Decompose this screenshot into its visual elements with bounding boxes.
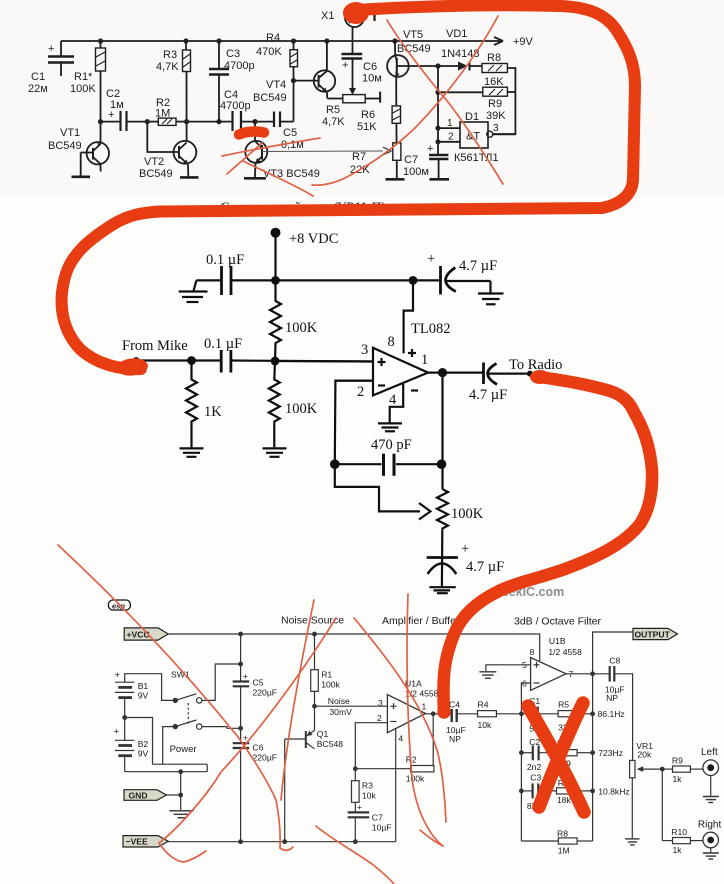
svg-text:100K: 100K [70, 83, 96, 95]
svg-text:+: + [243, 671, 248, 681]
svg-text:+8 VDC: +8 VDC [289, 231, 338, 247]
svg-text:BC549: BC549 [253, 92, 287, 104]
node OUTPUT tag [633, 628, 678, 639]
wire filter right column [592, 674, 594, 841]
capacitor C8 [593, 673, 610, 675]
svg-text:3: 3 [361, 342, 368, 358]
ground symbol GND [169, 810, 193, 812]
node VT4 base junction [291, 78, 296, 83]
wire thin red line over VT3 c [243, 161, 313, 196]
svg-text:51K: 51K [357, 121, 377, 133]
transistor VT1 [87, 142, 109, 164]
capacitor C5 [273, 112, 275, 128]
svg-text:+: + [114, 727, 120, 738]
svg-text:4700p: 4700p [220, 100, 251, 112]
resistor R5 trimmer [327, 98, 343, 100]
resistor R3 [183, 50, 191, 72]
transistor VT2 [174, 141, 197, 164]
svg-text:2: 2 [448, 132, 454, 143]
capacitor 4.7uF bottom [441, 531, 444, 587]
wire thick red stroke from To Radio down to C4 [443, 377, 652, 712]
wire +9V top rail [61, 40, 503, 42]
capacitor 470pF [330, 459, 340, 469]
svg-text:VD1: VD1 [446, 28, 467, 40]
svg-text:From Mike: From Mike [122, 338, 188, 354]
wire thin red line A bottom left [58, 545, 280, 848]
svg-text:100k: 100k [321, 680, 340, 690]
wire pin3 [315, 705, 388, 707]
node VT1 collector junction [98, 119, 103, 124]
resistor R9 [483, 87, 508, 96]
node GND tag [124, 790, 166, 801]
wire battery bottom row [125, 764, 208, 772]
capacitor C6 [240, 728, 242, 742]
svg-text:To Radio: To Radio [509, 357, 562, 373]
wire VT3 base feedback line [262, 150, 383, 153]
resistor R6 [392, 106, 400, 123]
wire pin6 [521, 683, 530, 714]
ground VT1 [72, 176, 91, 179]
wire thin red line A flick [280, 847, 293, 850]
svg-text:1M: 1M [155, 108, 170, 120]
wire pin4 ground [390, 384, 404, 423]
wire feedback column [432, 714, 434, 769]
svg-text:U1B: U1B [549, 636, 566, 646]
resistor 100K lower [269, 361, 280, 447]
wire output column [441, 373, 443, 490]
ground 4.7uF bottom [429, 586, 455, 588]
svg-text:4,7K: 4,7K [156, 61, 179, 73]
capacitor 0.1uF input [220, 350, 223, 373]
resistor 100K trimmer [437, 489, 448, 531]
ground R7 [386, 178, 405, 181]
svg-text:OUTPUT: OUTPUT [635, 629, 671, 639]
svg-text:3: 3 [493, 123, 499, 134]
capacitor C4 [231, 111, 233, 131]
wire feedback left rail [335, 381, 373, 465]
svg-text:+9V: +9V [513, 36, 534, 48]
svg-text:4,7K: 4,7K [322, 116, 345, 128]
capacitor C1 [532, 707, 534, 721]
resistor R2 [158, 118, 176, 125]
svg-text:1: 1 [422, 702, 427, 712]
svg-text:+: + [342, 60, 348, 72]
node +VCC tag [124, 628, 168, 640]
svg-text:C5: C5 [283, 127, 297, 139]
svg-text:R8: R8 [487, 52, 501, 64]
diode VD1 [458, 62, 468, 71]
wire thin red line D bottom middle [407, 594, 443, 846]
svg-text:20k: 20k [637, 750, 652, 760]
node D1 pin1 junction [435, 126, 440, 131]
svg-text:B1: B1 [138, 681, 149, 691]
svg-text:10k: 10k [478, 720, 493, 730]
svg-text:2n2: 2n2 [527, 762, 542, 772]
wire U1A output [426, 713, 452, 715]
svg-text:0.1 µF: 0.1 µF [204, 336, 242, 352]
ground C7 [430, 178, 450, 181]
resistor 1K [186, 361, 197, 448]
svg-text:+: + [48, 43, 54, 55]
svg-text:220µF: 220µF [253, 688, 278, 698]
wire input row [136, 359, 221, 361]
svg-text:100k: 100k [406, 774, 425, 784]
wire output [428, 372, 483, 374]
wire thick red X over filter stroke 1 [528, 706, 584, 812]
wire thick red X over filter stroke 2 [539, 703, 583, 807]
wire thin red line B bottom left [159, 618, 336, 843]
capacitor C7 [429, 154, 448, 156]
svg-text:R1: R1 [321, 670, 332, 680]
svg-text:R10: R10 [671, 827, 687, 837]
ground 100K lower [263, 447, 287, 449]
svg-text:C6: C6 [363, 61, 377, 73]
svg-text:1K: 1K [204, 404, 222, 420]
connector X1 [352, 27, 354, 54]
capacitor C5 [240, 634, 242, 681]
wire pin3 input [275, 360, 373, 363]
svg-text:C3: C3 [530, 773, 541, 783]
svg-text:R7: R7 [352, 151, 366, 163]
svg-text:R5: R5 [558, 700, 569, 710]
svg-text:C5: C5 [253, 678, 264, 688]
resistor R2 [411, 766, 434, 772]
wire +8VDC feed [274, 233, 276, 281]
svg-text:VT4: VT4 [266, 79, 286, 91]
wire output to OUTPUT tag [593, 632, 633, 674]
wire pin8 supply [404, 280, 413, 353]
svg-text:9V: 9V [138, 749, 149, 759]
svg-text:10.8kHz: 10.8kHz [598, 786, 630, 796]
svg-text:+: + [461, 541, 469, 557]
svg-text:C1: C1 [31, 71, 45, 83]
resistor R7 [557, 788, 578, 794]
node rail junction dots [98, 38, 398, 43]
node C2/R2 junction [145, 119, 150, 124]
capacitor C4 [451, 709, 453, 722]
svg-text:B2: B2 [138, 739, 149, 749]
svg-text:C6: C6 [253, 743, 264, 753]
svg-text:R9: R9 [488, 98, 502, 110]
svg-text:+: + [357, 802, 362, 812]
svg-text:R6: R6 [361, 109, 375, 121]
svg-text:BC549: BC549 [48, 140, 82, 152]
ground Left jack [703, 796, 719, 798]
node C3 bottom junction [216, 119, 221, 124]
svg-text:470K: 470K [256, 46, 282, 58]
svg-text:Q1: Q1 [317, 729, 329, 739]
capacitor C7 [348, 811, 370, 813]
node From Mike input terminal [133, 357, 140, 364]
svg-text:R8: R8 [557, 829, 568, 839]
ground 1K [180, 447, 204, 449]
svg-text:C4: C4 [449, 700, 460, 710]
svg-text:8: 8 [388, 334, 395, 350]
svg-text:1/2 4558: 1/2 4558 [548, 647, 582, 657]
logo ESP [108, 600, 130, 610]
transistor Q1 [314, 706, 316, 730]
wire U1B output [566, 673, 593, 675]
transistor VT5 [387, 55, 409, 77]
svg-text:4: 4 [398, 734, 403, 744]
ground VT3 [244, 177, 266, 180]
svg-text:R1*: R1* [74, 71, 93, 83]
svg-text:86.1Hz: 86.1Hz [598, 709, 625, 719]
resistor R10 [662, 840, 672, 842]
resistor R8 [482, 64, 507, 73]
resistor R9 [662, 768, 672, 770]
svg-text:Amplifier / Buffer: Amplifier / Buffer [382, 615, 460, 627]
svg-text:VT5: VT5 [403, 29, 423, 41]
svg-text:4.7 µF: 4.7 µF [469, 387, 507, 403]
wire thin red line over VT3 a [222, 138, 320, 156]
svg-text:39K: 39K [486, 110, 506, 122]
svg-text:VT2: VT2 [144, 156, 164, 168]
svg-text:100K: 100K [285, 320, 318, 336]
capacitor C2 [101, 121, 121, 123]
capacitor C6 [342, 53, 363, 55]
node VT3 collector junction [252, 119, 257, 124]
svg-text:1M: 1M [558, 845, 570, 855]
wire thin red line D tick [420, 830, 443, 846]
svg-text:R3: R3 [362, 781, 373, 791]
svg-text:2: 2 [357, 384, 364, 400]
svg-text:2: 2 [377, 713, 382, 723]
svg-text:R4: R4 [478, 700, 489, 710]
wire trimmer wiper arm [335, 464, 420, 511]
capacitor 4.7uF output [482, 363, 485, 385]
wire -VEE rail [168, 841, 395, 843]
ground pin5 [479, 671, 496, 673]
svg-text:Noise: Noise [328, 696, 350, 706]
svg-text:+: + [115, 670, 121, 681]
svg-text:+: + [427, 143, 433, 155]
svg-text:C3: C3 [226, 48, 240, 60]
svg-text:1: 1 [447, 118, 453, 129]
wire thin red line P over VT5 section [312, 16, 498, 185]
svg-text:22м: 22м [28, 83, 48, 95]
transistor VT3 [245, 141, 267, 163]
svg-text:R4: R4 [266, 32, 280, 44]
+9V arrow [494, 37, 503, 45]
resistor R3 [352, 781, 360, 803]
svg-text:Left: Left [701, 747, 718, 758]
ground 4.7uF supply [478, 292, 504, 294]
op-amp U1A [387, 695, 425, 733]
svg-text:X1: X1 [321, 10, 334, 22]
wire thin red line Q over VT5 section [387, 20, 503, 184]
wire thin red line B hook [159, 843, 206, 862]
svg-text:16K: 16K [484, 76, 504, 88]
resistor R6 [556, 750, 577, 756]
svg-text:10µF: 10µF [372, 823, 392, 833]
svg-text:+: + [427, 251, 435, 267]
svg-text:TL082: TL082 [411, 321, 450, 337]
resistor R4 [478, 711, 497, 717]
svg-text:10м: 10м [362, 73, 382, 85]
op-amp U1B [531, 658, 566, 691]
resistor R7 [393, 143, 401, 160]
resistor R5 [558, 711, 576, 717]
node R2/R3 junction [184, 119, 189, 124]
svg-text:−VEE: −VEE [126, 837, 148, 847]
svg-text:723Hz: 723Hz [598, 748, 623, 758]
resistor R8 [521, 840, 558, 842]
svg-text:К561ТЛ1: К561ТЛ1 [454, 152, 499, 164]
capacitor C3 [521, 790, 532, 792]
op-amp U1 TL082 [373, 348, 428, 396]
node VT5 base/diode junction [435, 63, 440, 68]
wire thin red line over VT3 b [227, 143, 262, 174]
svg-text:220µF: 220µF [253, 753, 278, 763]
resistor R1 [96, 48, 106, 71]
ground pin4 [378, 422, 402, 424]
node Noise [312, 704, 317, 709]
svg-text:Right: Right [698, 820, 722, 831]
svg-text:BC548: BC548 [317, 739, 343, 749]
svg-text:100K: 100K [451, 506, 484, 522]
svg-text:C7: C7 [372, 813, 383, 823]
svg-text:VT1: VT1 [60, 127, 80, 139]
svg-text:4700p: 4700p [224, 60, 255, 72]
IC D1 K561TL1 [460, 122, 488, 148]
svg-text:3dB / Octave Filter: 3dB / Octave Filter [514, 616, 601, 628]
svg-text:GND: GND [129, 790, 148, 800]
svg-text:NP: NP [606, 693, 618, 703]
ground VT2 [180, 176, 199, 179]
node -VEE tag [123, 836, 168, 847]
svg-text:1: 1 [421, 352, 428, 368]
svg-text:10k: 10k [362, 791, 377, 801]
svg-text:C7: C7 [404, 154, 418, 166]
capacitor 0.1uF decoupling [220, 266, 223, 295]
svg-text:R3: R3 [163, 49, 177, 61]
svg-text:470 pF: 470 pF [371, 437, 412, 453]
svg-text:D1: D1 [465, 111, 479, 123]
wire pin4 to -VEE [395, 729, 397, 842]
svg-text:4.7 µF: 4.7 µF [459, 258, 497, 274]
svg-text:9V: 9V [138, 691, 149, 701]
wire VT5 base column [437, 66, 439, 154]
node battery midpoint [122, 715, 127, 720]
svg-text:0.1 µF: 0.1 µF [206, 252, 244, 268]
svg-text:100м: 100м [403, 166, 429, 178]
capacitor C1 [60, 41, 62, 56]
svg-text:1k: 1k [673, 774, 683, 784]
svg-text:R5: R5 [326, 104, 340, 116]
wire pin2 input [335, 380, 373, 382]
ground VR1 [625, 838, 639, 840]
wire pin5 to ground [486, 665, 531, 671]
svg-text:Power: Power [170, 744, 197, 755]
ground decoupling cap [179, 290, 208, 292]
wire +VCC rail [168, 634, 539, 661]
svg-text:NP: NP [449, 734, 461, 744]
wire pin2 [355, 723, 387, 781]
resistor 100K upper [270, 280, 281, 361]
ground Right jack [703, 852, 719, 854]
svg-text:100K: 100K [285, 401, 318, 417]
node D1 pin2 junction [435, 139, 440, 144]
svg-text:4.7 µF: 4.7 µF [466, 559, 504, 575]
capacitor 4.7uF supply [439, 266, 442, 295]
wire thick red dash over C5 [239, 132, 264, 135]
svg-text:1N4148: 1N4148 [441, 48, 480, 60]
svg-text:BC549: BC549 [139, 168, 173, 180]
svg-text:BC549: BC549 [397, 43, 431, 55]
svg-text:SW1: SW1 [171, 670, 190, 680]
capacitor C3 [218, 41, 220, 68]
wire thin red line E bottom middle [354, 618, 446, 822]
svg-text:+VCC: +VCC [127, 629, 150, 639]
svg-text:1k: 1k [673, 845, 683, 855]
wire thick red marker loop around top schematic [62, 5, 635, 369]
svg-text:30mV: 30mV [329, 707, 352, 717]
svg-text:+: + [108, 109, 114, 121]
wire thin red line C bottom middle [281, 600, 314, 800]
wire supply rail [231, 279, 441, 281]
wire thin red line swoosh bottom middle [316, 826, 394, 884]
wire filter left column [520, 714, 522, 841]
capacitor C2 [521, 752, 532, 754]
svg-text:8: 8 [530, 647, 535, 657]
svg-text:4: 4 [389, 392, 397, 408]
transistor VT4 [294, 80, 319, 82]
wire VR1 to R10 [661, 769, 663, 841]
node R9 junction [435, 90, 440, 95]
node +8VDC terminal [271, 228, 281, 238]
svg-text:R9: R9 [672, 756, 683, 766]
svg-text:C8: C8 [609, 656, 620, 666]
resistor R4 [290, 50, 298, 67]
resistor R1 [314, 634, 316, 670]
